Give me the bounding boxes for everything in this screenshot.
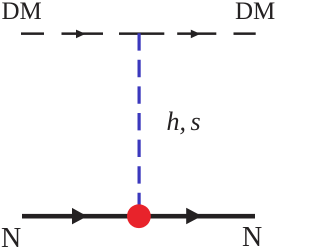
- DM dashed line segment 1: [21, 32, 44, 35]
- DM line arrow 1: [76, 30, 86, 39]
- N label right: [242, 224, 262, 252]
- DM dashed line segment 4: [177, 32, 216, 35]
- DM dashed line segment 2: [62, 32, 104, 35]
- vertex blob (red): [127, 204, 151, 228]
- nucleon line: [22, 214, 255, 219]
- DM label right: [235, 0, 275, 24]
- DM dashed line segment 5: [234, 32, 256, 35]
- label h,s: [167, 109, 201, 135]
- DM dashed line segment 3: [119, 32, 164, 35]
- DM label left: [2, 0, 42, 24]
- nucleon arrow 2: [186, 208, 202, 225]
- N label left: [1, 225, 21, 252]
- mediator propagator h,s (blue dashed): [138, 33, 141, 205]
- DM line arrow 2: [191, 30, 201, 39]
- nucleon arrow 1: [72, 208, 87, 225]
